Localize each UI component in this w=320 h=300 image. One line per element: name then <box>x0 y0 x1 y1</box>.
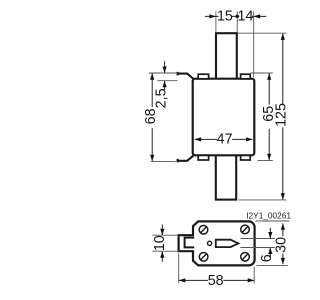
bottom blade <box>216 155 236 200</box>
bottom grip lug <box>178 155 194 162</box>
fuse body (front view) <box>193 79 255 156</box>
screw bottom-left <box>199 252 208 261</box>
extension line base bottom (plan 30) <box>257 264 289 266</box>
extension line lug bottom (left short) <box>157 80 177 82</box>
dimension 6 <box>268 228 272 258</box>
extension line lug top (right) <box>251 72 273 74</box>
dimension 68 <box>150 73 154 161</box>
extension line slot bottom (plan 6) <box>240 247 274 249</box>
keyhole slot (plan view) <box>216 240 239 247</box>
dimension text 30 <box>274 237 290 253</box>
svg-text:I2Y1_00261: I2Y1_00261 <box>246 211 291 221</box>
extension line bottom lug (right) <box>257 160 272 162</box>
dimension 125 <box>281 33 285 199</box>
extension line blade right (top dim) <box>236 12 238 33</box>
drawing label I2Y1_00261 <box>246 211 291 221</box>
blade tab notch (plan view) <box>185 238 195 248</box>
dimension 65 <box>267 73 271 160</box>
extension line lug top (left) <box>149 72 178 74</box>
bottom contact tab right <box>241 155 251 160</box>
dimension text 10 <box>152 235 168 251</box>
svg-text:125: 125 <box>274 103 290 127</box>
screw top-left <box>199 226 208 235</box>
dimension text 68 <box>143 108 159 124</box>
top contact tab right <box>241 74 251 79</box>
extension line tab bottom (plan 10) <box>152 250 177 252</box>
extension line slot top (plan 6) <box>240 238 274 240</box>
extension line tab left (plan 58) <box>178 253 180 283</box>
dimension text 14 <box>238 8 254 24</box>
dimension 58 <box>179 278 254 282</box>
top contact tab left <box>198 74 208 79</box>
extension line bottom lug (left) <box>151 160 176 162</box>
svg-text:58: 58 <box>208 273 224 289</box>
extension line tab top (plan 10) <box>152 234 177 236</box>
dimension text 2,5 <box>154 88 170 108</box>
top blade <box>216 33 237 79</box>
dimension 10 <box>160 225 164 262</box>
dimension 47 <box>195 137 253 141</box>
fuse base outline (plan view) <box>179 221 255 265</box>
dimension text 58 <box>208 273 224 289</box>
svg-text:47: 47 <box>217 131 233 147</box>
dimension 2,5 <box>163 61 167 90</box>
extension line blade bottom (right) <box>238 199 286 201</box>
svg-text:2,5: 2,5 <box>154 88 170 108</box>
bottom contact tab left <box>198 155 208 160</box>
dimension text 6 <box>259 254 275 262</box>
svg-text:10: 10 <box>152 235 168 251</box>
dimension text 125 <box>274 103 290 127</box>
extension line base right (plan 58) <box>253 267 255 284</box>
center hole (plan view) <box>208 241 212 245</box>
svg-text:6: 6 <box>259 254 275 262</box>
extension line body right (top dim) <box>253 12 255 78</box>
dimension 15 / 14 line <box>205 14 266 18</box>
screw top-right <box>241 225 250 234</box>
extension line base top (plan 30) <box>256 220 290 222</box>
dimension text 65 <box>261 106 277 122</box>
extension line blade top (right) <box>238 32 287 34</box>
svg-text:15: 15 <box>217 8 233 24</box>
extension line blade left (top dim) <box>215 12 217 33</box>
screw bottom-right <box>241 252 250 261</box>
svg-text:68: 68 <box>143 108 159 124</box>
dimension text 15 <box>217 8 233 24</box>
dimension text 47 <box>217 131 233 147</box>
top grip lug <box>178 72 194 79</box>
svg-text:30: 30 <box>274 237 290 253</box>
dimension 30 <box>281 223 285 264</box>
svg-text:14: 14 <box>238 8 254 24</box>
